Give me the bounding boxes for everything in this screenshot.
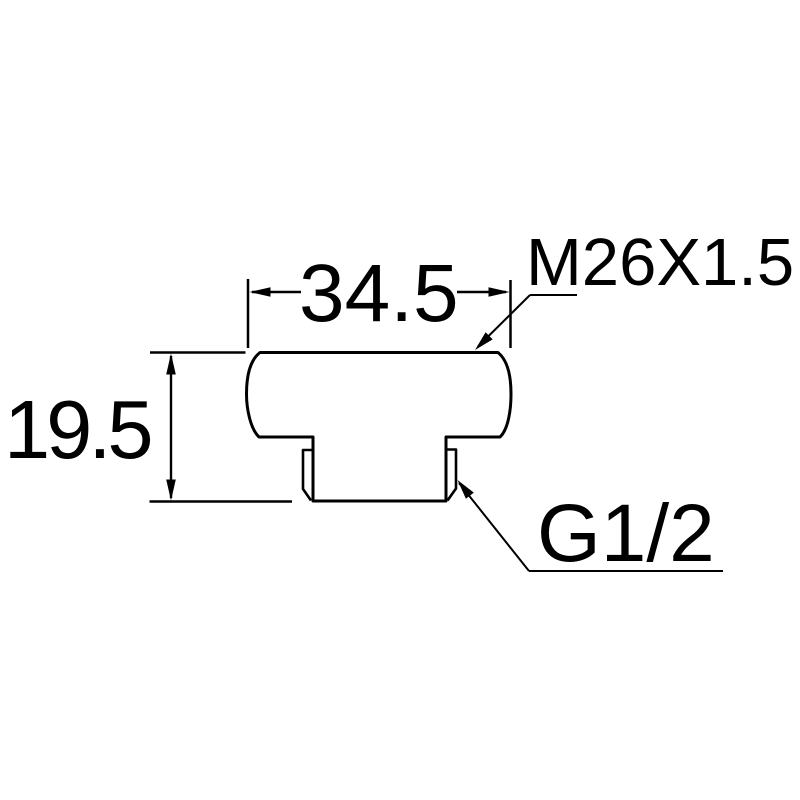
fitting body outline (M26 cap with G1/2 male thread) (247, 353, 512, 502)
dimension 19.5 bottom extension line (150, 500, 293, 502)
svg-text:34.5: 34.5 (299, 248, 459, 339)
G1/2 leader arrowhead (458, 480, 474, 499)
dimension 19.5 vertical line (170, 356, 172, 498)
dimension 34.5 right extension tick (509, 280, 512, 348)
M26X1.5 leader arrowhead (475, 332, 493, 350)
dimension 34.5 right arrowhead (489, 287, 510, 297)
dimension 34.5 left arrowhead (250, 287, 271, 297)
G1/2 leader underline (529, 570, 723, 572)
dimension 19.5 top arrowhead (166, 354, 176, 375)
left thread-relief collar (303, 450, 313, 501)
svg-text:19.5: 19.5 (4, 383, 150, 476)
dimension 34.5 left extension tick (247, 279, 250, 348)
right thread-relief collar (446, 450, 456, 501)
M26X1.5 leader diagonal (478, 295, 530, 347)
dimension 34.5 right arrow line (457, 291, 506, 293)
G1/2 leader diagonal (459, 483, 529, 571)
dimension 34.5 left arrow line (252, 291, 301, 293)
M26X1.5 leader underline (530, 294, 577, 296)
svg-text:G1/2: G1/2 (537, 488, 715, 579)
dimension 19.5 bottom arrowhead (166, 480, 176, 501)
dimension 19.5 top extension line (150, 351, 246, 353)
svg-text:M26X1.5: M26X1.5 (526, 225, 794, 300)
